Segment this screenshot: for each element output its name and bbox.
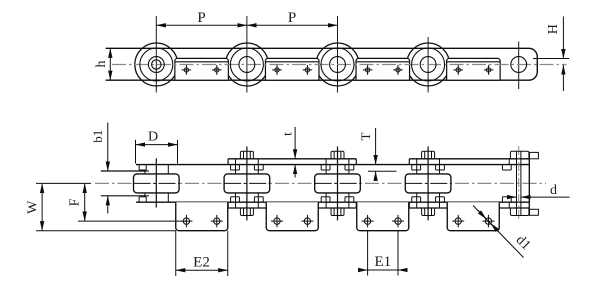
- d right arrow: [521, 196, 530, 198]
- attachment hole 4a: [453, 65, 463, 75]
- joint 2 plan details: [231, 147, 264, 221]
- tab 4 hole a: [452, 215, 464, 227]
- rail outer plate line A top (outer link 4-5): [409, 158, 529, 160]
- d1 arrow upper: [478, 210, 486, 218]
- svg-text:b1: b1: [90, 130, 105, 143]
- T reference segment: [368, 170, 397, 172]
- attachment hole 1a: [182, 65, 192, 75]
- tab 3 hole a: [362, 215, 374, 227]
- svg-text:E1: E1: [374, 254, 391, 270]
- dimension F: [84, 183, 86, 221]
- svg-text:W: W: [26, 200, 41, 214]
- attachment box link 3-4: [356, 58, 410, 80]
- pin hole joint 3: [330, 57, 346, 73]
- dimension h: [109, 48, 111, 80]
- attachment box link 2-3: [265, 58, 319, 80]
- link plate strip top edge: [106, 47, 529, 49]
- H extension line (attachment top level): [533, 58, 569, 60]
- dimension E2: [176, 269, 228, 271]
- attachment box link 1-2: [175, 58, 229, 80]
- d1 arrow lower: [491, 223, 499, 231]
- inner face line C' left extension (b1 reference): [101, 195, 149, 197]
- bushing joint 3: [321, 48, 354, 81]
- svg-text:d: d: [550, 183, 557, 198]
- roller pill joint 4: [405, 174, 451, 193]
- tab 4 hole b: [482, 215, 494, 227]
- svg-text:T: T: [358, 132, 373, 140]
- svg-text:t: t: [280, 132, 295, 136]
- joint 2 vertical centerline: [246, 16, 248, 93]
- attachment tab 2: [266, 202, 318, 231]
- tab 3 hole b: [392, 215, 404, 227]
- tab 1 hole b: [211, 215, 223, 227]
- attachment hole 2b: [303, 65, 313, 75]
- link plate strip bottom edge: [106, 79, 529, 81]
- svg-text:D: D: [148, 130, 158, 145]
- attachment hole 2a: [272, 65, 282, 75]
- attachment tab 1: [176, 202, 228, 231]
- hole level extension line: [78, 220, 187, 222]
- chain end vertical: [528, 152, 530, 215]
- E1 ext lines: [367, 231, 369, 276]
- svg-text:h: h: [94, 61, 109, 68]
- roller center line joint 3: [315, 182, 361, 184]
- dimension D: [136, 144, 178, 146]
- rail outer plate line A bottom (outer link 4-5): [409, 207, 529, 209]
- joint 4 plan details: [412, 147, 445, 221]
- svg-text:F: F: [68, 198, 83, 206]
- roller joint 4: [407, 43, 450, 86]
- svg-text:H: H: [546, 24, 561, 34]
- dimension D ext lines: [135, 140, 137, 164]
- attachment box link 4-5: [447, 58, 501, 80]
- svg-text:P: P: [288, 10, 296, 26]
- roller pill joint 3: [315, 174, 361, 193]
- svg-text:P: P: [197, 10, 205, 26]
- dimension t lower arrow: [294, 165, 296, 178]
- d left arrow: [507, 196, 517, 198]
- roller center line joint 1: [134, 182, 180, 184]
- attachment hole 4b: [484, 65, 494, 75]
- joint 1 plan details: [139, 158, 168, 207]
- dimension H lower arrow: [562, 65, 564, 91]
- dimension H upper arrow: [562, 17, 564, 59]
- dimension W: [41, 183, 43, 230]
- d1 leader line: [473, 206, 524, 258]
- tab 1 hole a: [180, 215, 192, 227]
- pin hole joint 1: [148, 57, 164, 73]
- tab bottom extension line: [36, 230, 176, 232]
- dimension t upper arrow: [294, 127, 296, 159]
- roller pill joint 2: [224, 174, 270, 193]
- dimension P span 2: [247, 24, 338, 26]
- roller joint 3: [316, 43, 359, 86]
- bushing joint 4: [412, 48, 445, 81]
- dimension T lower arrow: [375, 171, 377, 181]
- dimension T upper arrow: [375, 128, 377, 165]
- attachment tab 3: [357, 202, 409, 231]
- pin hole joint 2: [239, 57, 255, 73]
- outer plate end steps: [228, 159, 409, 208]
- joint 3 vertical centerline: [337, 16, 339, 93]
- pin joint 5: [511, 57, 527, 73]
- bushing joint 1: [140, 48, 173, 81]
- rail line B bottom: [136, 201, 529, 203]
- dimension b1 lower arrow: [107, 196, 109, 214]
- tab 2 hole b: [301, 215, 313, 227]
- inner face line C left extension (b1 reference): [101, 170, 149, 172]
- E1 right arrow: [398, 269, 406, 271]
- rail outer plate line A bottom (outer link 2-3): [228, 207, 356, 209]
- plan centerline: [95, 182, 546, 184]
- roller joint 1: [135, 43, 178, 86]
- centerline left extension: [36, 182, 91, 184]
- attachment hole 3a: [363, 65, 373, 75]
- chain horizontal centerline: [112, 64, 567, 66]
- joint 5 vertical centerline: [518, 42, 520, 90]
- roller pill joint 1: [134, 174, 180, 193]
- dimension b1 upper arrow: [107, 123, 109, 172]
- svg-text:E2: E2: [193, 255, 210, 271]
- rail outer plate line A top (outer link 2-3): [228, 158, 356, 160]
- roller center line joint 2: [224, 182, 270, 184]
- pin joint 1: [152, 60, 161, 69]
- E2 ext lines: [175, 231, 177, 276]
- pin hole joint 4: [420, 57, 436, 73]
- joint 3 plan details: [321, 147, 354, 221]
- attachment hole 3b: [393, 65, 403, 75]
- joint 5 plan details: [502, 146, 538, 221]
- attachment hole 1b: [212, 65, 222, 75]
- attachment tab 4: [447, 202, 499, 231]
- dimension E1 line: [358, 269, 408, 271]
- plate rounded end at joint 5: [529, 48, 538, 80]
- dimension d line: [525, 196, 570, 198]
- joint 4 vertical centerline: [427, 37, 429, 93]
- roller joint 2: [225, 43, 268, 86]
- joint 1 vertical centerline: [155, 16, 157, 93]
- E1 left arrow: [360, 269, 368, 271]
- tab 2 hole a: [271, 215, 283, 227]
- dimension P span 1: [156, 24, 247, 26]
- rail line B top: [136, 164, 529, 166]
- bushing joint 2: [230, 48, 263, 81]
- roller center line joint 4: [405, 182, 451, 184]
